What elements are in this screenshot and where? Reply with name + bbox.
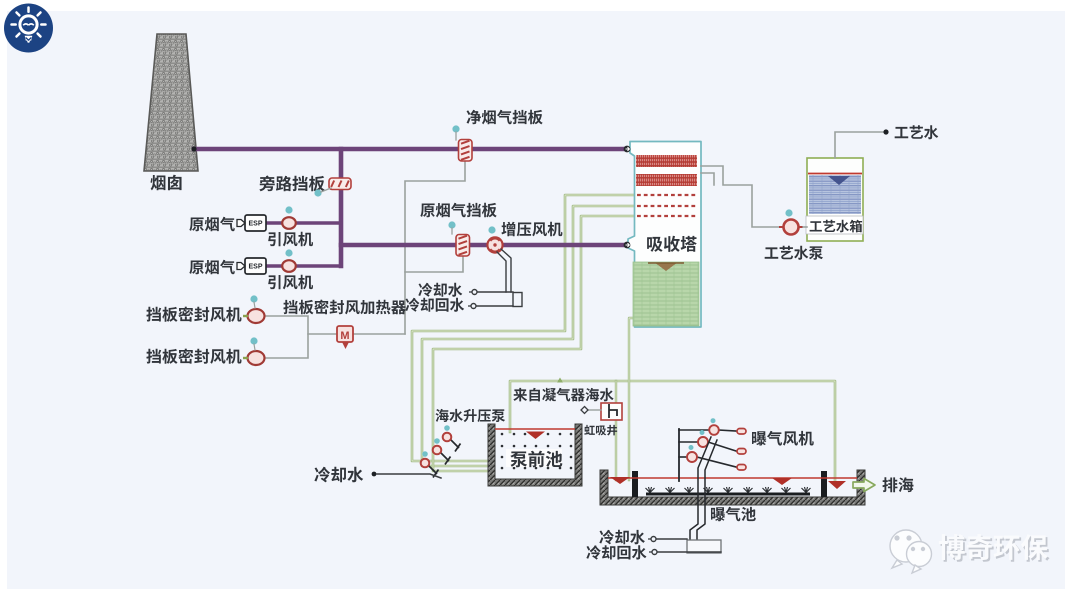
fan rack xyxy=(678,429,680,481)
ID fan 引风机 xyxy=(282,217,296,229)
label 旁路挡板 xyxy=(259,176,324,192)
arrow into ESP xyxy=(237,263,245,270)
label 挡板密封风机 xyxy=(146,307,241,322)
aeration fan 2 xyxy=(679,441,698,443)
outlet nozzle xyxy=(737,449,746,455)
aeration fan 3 xyxy=(679,456,687,458)
absorber spray bank 1 xyxy=(636,155,697,167)
watermark wechat icon xyxy=(890,530,932,573)
node arrow 冷却回水 xyxy=(468,305,471,307)
wire control clean-damper loop xyxy=(405,161,465,334)
basin 曝气池 walls xyxy=(600,470,865,505)
sensor dot xyxy=(250,337,257,344)
aeration fan 1 xyxy=(679,429,709,431)
label 原烟气 xyxy=(189,260,234,275)
damper 原烟气挡板 xyxy=(456,235,470,257)
label 挡板密封风机 xyxy=(146,349,241,364)
node absorber inlet top xyxy=(624,146,631,153)
label 虹吸井 xyxy=(584,425,617,436)
label 冷却水 bottom-left xyxy=(314,467,363,483)
seawater pump 3 海水升压泵 xyxy=(429,466,439,478)
label 曝气风机 xyxy=(752,431,814,446)
label 原烟气挡板 xyxy=(420,203,496,218)
label 冷却水 xyxy=(418,283,462,297)
label 排海 xyxy=(882,477,913,492)
basin partition 1 xyxy=(632,471,638,497)
label 原烟气 xyxy=(189,217,234,232)
sensor dot xyxy=(314,189,321,196)
absorber liquid pool xyxy=(633,262,699,326)
label 工艺水 xyxy=(895,125,939,139)
pipe seawater supply B xyxy=(422,206,636,466)
sensor dot xyxy=(285,206,292,213)
wire control raw-damper xyxy=(405,257,463,272)
outlet nozzle xyxy=(737,465,746,471)
node arrow xyxy=(648,538,651,540)
sensor dot xyxy=(785,209,792,216)
sensor dot xyxy=(689,445,694,450)
ESP box 1 xyxy=(245,215,266,231)
sensor dot xyxy=(250,295,257,302)
watermark text 博奇环保 shadow xyxy=(941,536,1050,562)
process water tank 工艺水箱 xyxy=(807,158,863,241)
svg-text:M: M xyxy=(340,330,349,342)
label 引风机 xyxy=(268,275,313,290)
label 引风机 xyxy=(268,232,313,247)
absorber spray header rows xyxy=(637,194,696,196)
pipe pump to tank xyxy=(803,226,807,228)
pipe pump suction loop xyxy=(701,166,783,227)
seawater pump 1 海水升压泵 xyxy=(451,440,461,452)
sensor dot xyxy=(452,125,459,132)
pipe seawater supply C xyxy=(433,216,636,471)
pipe condenser seawater main y381 xyxy=(510,381,835,481)
label 泵前池 xyxy=(506,449,562,467)
basin partition 2 xyxy=(821,471,827,497)
damper 旁路挡板 xyxy=(329,178,351,190)
sensor dot xyxy=(711,418,716,423)
level mark left xyxy=(610,477,630,484)
wire 冷却水 bottom xyxy=(657,538,687,540)
svg-text:ESP: ESP xyxy=(248,264,262,271)
sensor dot xyxy=(700,430,705,435)
pool 泵前池 walls xyxy=(488,424,582,486)
diffusers xyxy=(646,487,811,493)
pool water level line xyxy=(495,428,575,430)
node siphon inlet diamond xyxy=(581,407,588,414)
absorber oxidation funnel xyxy=(656,264,676,272)
watermark text 博奇环保 xyxy=(939,534,1048,560)
sensor dot xyxy=(488,226,495,233)
wire purple vertical bypass x341 xyxy=(339,149,344,266)
wire siphon stub xyxy=(588,409,601,411)
basin water line xyxy=(608,477,857,479)
node arrow 冷却水 xyxy=(469,291,472,293)
label 增压风机 xyxy=(501,222,562,237)
wire purple ESP1-fan1 y223 xyxy=(265,221,341,225)
label 来自凝气器海水 xyxy=(513,388,613,402)
label 工艺水泵 xyxy=(765,246,823,260)
sensor dot xyxy=(448,221,455,228)
label 冷却回水 xyxy=(586,545,646,559)
label 冷却回水 xyxy=(405,298,464,312)
pipe booster fan cooling xyxy=(497,252,506,292)
ESP box 2 xyxy=(245,258,266,274)
cooling header box xyxy=(513,293,522,307)
label 曝气池 xyxy=(711,507,756,521)
aeration downcomer pipe xyxy=(690,437,711,540)
pool level mark xyxy=(526,432,545,440)
node arrow xyxy=(649,551,652,553)
level mark mid xyxy=(772,478,792,485)
label 挡板密封风加热器 xyxy=(283,300,406,315)
pump 工艺水泵 xyxy=(779,220,803,235)
logo lightbulb badge xyxy=(4,4,53,53)
chimney 烟囱 xyxy=(144,34,198,171)
ID fan 引风机 xyxy=(282,260,296,272)
outlet nozzle xyxy=(737,429,746,435)
junction tick xyxy=(557,378,563,383)
label box 工艺水箱 xyxy=(806,216,863,234)
node 工艺水 xyxy=(883,129,888,134)
pool water dots xyxy=(501,433,573,470)
wire purple booster line y245 xyxy=(341,243,627,248)
wire purple duct chimney-absorber y149 xyxy=(194,147,627,152)
label 烟囱 xyxy=(150,175,181,191)
pipe seawater supply A xyxy=(412,195,636,461)
label 吸收塔 xyxy=(647,236,697,252)
pipe cooling water to pumps xyxy=(377,474,441,478)
svg-text:ESP: ESP xyxy=(248,221,262,228)
absorber tower 吸收塔 shell xyxy=(628,142,701,328)
pipe absorber drain xyxy=(629,318,635,480)
sensor dot xyxy=(422,451,428,457)
seal fan 挡板密封风机 2 xyxy=(248,351,265,365)
seawater pump 2 海水升压泵 xyxy=(441,453,451,465)
node chimney connection xyxy=(191,146,196,151)
aeration header pipe xyxy=(646,493,810,496)
booster fan 增压风机 xyxy=(487,237,502,252)
level mark right xyxy=(828,481,846,489)
wire seal fan 1 to header xyxy=(265,316,308,358)
arrow 排海 xyxy=(853,479,875,492)
label 冷却水 xyxy=(599,530,645,545)
label 净烟气挡板 xyxy=(467,110,543,125)
wire heater branch xyxy=(308,333,337,335)
wire purple ESP2-fan2 y266 xyxy=(265,264,341,268)
seal fan 挡板密封风机 1 xyxy=(248,309,265,323)
heater M 挡板密封风加热器 xyxy=(337,326,353,349)
cooler box xyxy=(687,540,721,553)
sensor dot xyxy=(285,249,292,256)
pipe tank outlet to 工艺水 xyxy=(835,132,883,158)
sensor dot xyxy=(444,425,450,431)
wire heater to control riser xyxy=(352,333,405,335)
pipe siphon drop x616 xyxy=(615,381,617,480)
arrow into ESP xyxy=(237,220,245,227)
node arrow 冷却水 left xyxy=(372,472,377,477)
wire 冷却回水 bottom xyxy=(658,551,721,553)
node absorber inlet bottom xyxy=(624,242,631,249)
siphon well 虹吸井 box xyxy=(601,403,622,420)
label 海水升压泵 xyxy=(435,409,505,422)
damper 净烟气挡板 xyxy=(459,140,473,162)
sensor dot xyxy=(434,438,440,444)
absorber spray bank 2 xyxy=(636,174,697,186)
